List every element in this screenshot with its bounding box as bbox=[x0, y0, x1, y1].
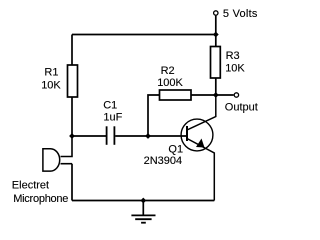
svg-text:10K: 10K bbox=[225, 63, 245, 75]
svg-text:10K: 10K bbox=[41, 80, 61, 92]
svg-text:100K: 100K bbox=[157, 77, 183, 89]
svg-text:R2: R2 bbox=[161, 65, 175, 77]
svg-text:R3: R3 bbox=[226, 50, 240, 62]
svg-text:Electret: Electret bbox=[12, 179, 49, 191]
svg-text:5 Volts: 5 Volts bbox=[223, 8, 258, 20]
svg-text:Q1: Q1 bbox=[168, 143, 183, 155]
svg-text:2N3904: 2N3904 bbox=[144, 155, 183, 167]
svg-text:Microphone: Microphone bbox=[13, 193, 68, 205]
svg-text:R1: R1 bbox=[44, 67, 58, 79]
svg-text:C1: C1 bbox=[103, 99, 117, 111]
svg-text:Output: Output bbox=[225, 102, 258, 114]
svg-text:1uF: 1uF bbox=[103, 111, 122, 123]
